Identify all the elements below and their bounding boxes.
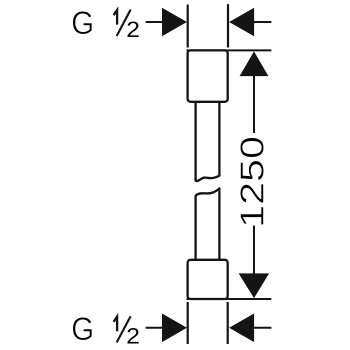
svg-text:2: 2: [126, 17, 140, 41]
svg-text:G: G: [71, 311, 94, 347]
down arrow of dimension 1250: [239, 273, 270, 298]
top hose nut: [188, 50, 228, 101]
svg-text:2: 2: [126, 324, 140, 348]
top-right arrow (points left): [229, 8, 254, 37]
up arrow of dimension 1250: [240, 51, 269, 76]
top thread label G 1/2: [71, 5, 140, 42]
bottom reference line of dimension: [187, 298, 272, 300]
top leader line: [146, 21, 163, 23]
bottom leader line: [146, 327, 163, 329]
top-left arrow (points right): [162, 8, 187, 37]
top-right arrow tail: [253, 21, 271, 23]
dimension line upper segment: [253, 75, 255, 133]
bottom thread label G 1/2: [71, 311, 140, 348]
top reference line of dimension: [187, 49, 272, 51]
bottom-left arrow (points right): [162, 314, 187, 343]
bottom-right arrow tail: [253, 327, 271, 329]
top-left extension line: [187, 5, 189, 48]
hose tube upper segment with break wave: [196, 102, 220, 181]
dimension line lower segment: [253, 226, 255, 275]
hose tube lower segment with break wave: [196, 188, 220, 259]
bottom-right arrow (points left): [229, 314, 254, 343]
bottom-left extension line: [187, 302, 189, 344]
svg-text:1250: 1250: [233, 136, 270, 228]
bottom-right extension line: [227, 302, 229, 344]
svg-text:G: G: [71, 5, 94, 41]
bottom hose nut: [188, 260, 228, 299]
top-right extension line: [227, 4, 229, 47]
